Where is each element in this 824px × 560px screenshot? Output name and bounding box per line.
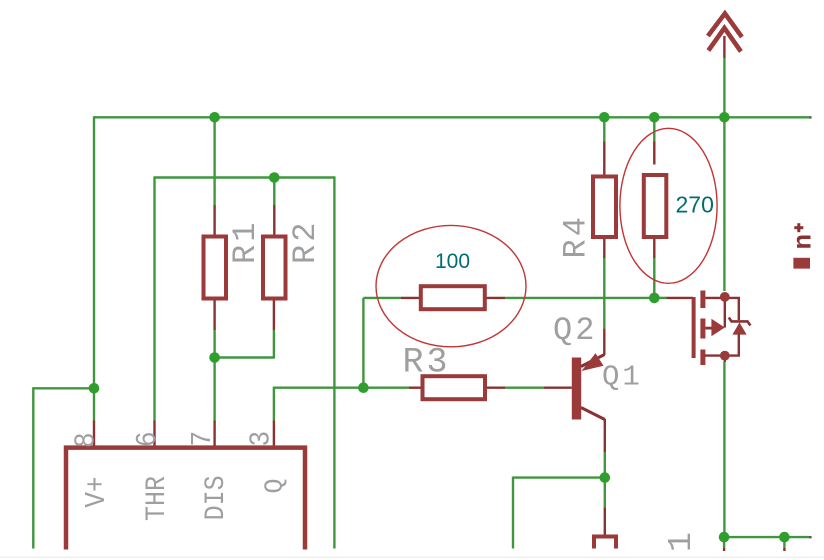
wire R1 bottom to junction — [213, 330, 215, 358]
resistor R1 — [204, 237, 227, 299]
wire y388 pin3 to junction — [273, 387, 364, 389]
ellipse annotation around 100 — [376, 225, 526, 346]
pin R1 bottom red — [213, 298, 215, 330]
pin R3 left red — [409, 387, 423, 389]
mosfet body diode zener bar — [729, 318, 751, 326]
pin base red — [544, 387, 572, 389]
pin stub red x784 — [783, 548, 785, 551]
junction at R4 top rail — [599, 112, 610, 123]
pin 3 stub red — [273, 421, 275, 447]
pin R3 right red — [485, 387, 505, 389]
wire junction left y477 — [513, 476, 605, 478]
wire R3 right to base — [505, 387, 544, 389]
pin 100 right red — [485, 297, 505, 299]
wire y537 to right edge — [724, 536, 809, 538]
wire junction down to bottom resistor — [604, 477, 606, 508]
pin bottom resistor red — [604, 507, 606, 534]
wire second rail y177 — [155, 176, 335, 178]
transistor Q1 base bar — [572, 358, 581, 420]
pin 100 left red — [401, 297, 421, 299]
svg-text:DIS: DIS — [200, 475, 232, 520]
junction at pin8 — [89, 383, 100, 394]
mosfet gate bar — [692, 297, 696, 358]
svg-text:V+: V+ — [81, 476, 114, 507]
svg-text:n: n — [789, 234, 819, 250]
VCC symbol inner chevron — [708, 28, 741, 52]
wire left drop x33 — [32, 387, 34, 548]
junction at gate net — [649, 293, 660, 304]
junction at 270 top rail — [649, 112, 660, 123]
ellipse annotation around 270 — [620, 128, 717, 283]
resistor R2 — [263, 237, 286, 299]
pin R4 bottom red — [603, 237, 605, 258]
pin R2 top red — [273, 205, 275, 237]
pin 270 top red — [653, 142, 655, 165]
IC 555 box — [66, 448, 305, 550]
wire stub below junction x784 — [783, 537, 785, 548]
wire y298 to 100 left — [363, 297, 401, 299]
pin stub red x724 — [723, 548, 725, 551]
mosfet diode bottom link — [705, 334, 739, 356]
wire stub below junction x724 — [723, 537, 725, 548]
wire y388 junction to R3 — [362, 387, 409, 389]
wire pin 8 stub — [93, 421, 95, 447]
wire pin3 riser — [273, 388, 275, 421]
pin 270 bottom red — [653, 237, 655, 258]
svg-text:270: 270 — [676, 192, 714, 218]
junction at R1 top rail — [209, 112, 220, 123]
transistor Q1 emitter arrow — [582, 353, 604, 371]
resistor 100 — [421, 286, 485, 309]
pin VCC stem red — [723, 36, 725, 58]
mosfet drain link — [705, 297, 724, 299]
port In+ plus sign — [797, 223, 800, 232]
junction at VCC rail — [719, 112, 730, 123]
svg-text:Q1: Q1 — [602, 361, 643, 394]
VCC symbol outer chevron — [708, 14, 742, 38]
resistor 270 — [644, 175, 667, 237]
wire left vertical from rail to pin8 — [93, 116, 95, 420]
wire rail to mosfet drain — [723, 117, 725, 291]
wire junction to gate lead — [654, 297, 666, 299]
wire R2 top — [273, 178, 275, 206]
mosfet drain dot — [720, 292, 730, 302]
wire R2 bottom riser — [273, 330, 275, 359]
transistor Q1 emitter diagonal top — [581, 355, 605, 367]
pin emitter red — [604, 419, 606, 452]
pin 7 stub red — [213, 421, 215, 447]
pin R4 top red — [603, 142, 605, 178]
svg-text:8: 8 — [70, 432, 103, 448]
svg-text:THR: THR — [141, 476, 173, 521]
mosfet bulk stub — [705, 327, 712, 330]
wire horizontal y388 to left — [33, 387, 94, 389]
mosfet bulk-drain vertical — [724, 297, 726, 328]
pin gate red — [667, 297, 694, 299]
wire pin 6 stub — [153, 421, 155, 447]
wire 100 right to junction — [505, 297, 654, 299]
wire top rail VCC — [94, 116, 810, 118]
wire VCC to rail — [723, 58, 725, 117]
svg-text:R1: R1 — [227, 220, 264, 264]
faint window boundary line — [0, 557, 824, 558]
svg-text:3: 3 — [245, 431, 278, 447]
svg-text:Q2: Q2 — [553, 312, 597, 349]
mosfet body diode branch — [725, 298, 739, 320]
wire junction up to 100 branch — [362, 298, 364, 389]
svg-text:Q: Q — [260, 478, 290, 493]
wire emitter to junction — [604, 452, 606, 478]
svg-text:R2: R2 — [287, 220, 324, 264]
svg-text:100: 100 — [435, 250, 470, 273]
wire end tip top rail — [809, 116, 812, 118]
junction at bottom x784 — [779, 532, 790, 543]
junction at bottom x724 — [719, 532, 730, 543]
svg-text:7: 7 — [187, 431, 220, 447]
pin R1 top red — [213, 205, 215, 237]
pin mosfet source stub red — [724, 356, 726, 362]
wire pin7 vertical — [213, 356, 215, 420]
svg-text:R4: R4 — [558, 214, 595, 258]
junction at R2 top — [269, 172, 280, 183]
mosfet channel bar middle — [700, 319, 705, 339]
svg-text:R3: R3 — [403, 343, 451, 383]
wire pin6 vertical — [153, 176, 155, 420]
wire mosfet source down — [723, 362, 725, 537]
wire drop x513 — [512, 477, 514, 549]
wire R1 top — [213, 117, 215, 205]
resistor R3 — [423, 376, 486, 399]
junction at R1 bottom — [209, 352, 220, 363]
wire 270 top — [653, 117, 655, 141]
wire R4 top — [603, 117, 605, 141]
transistor Q1 collector diagonal bottom — [581, 408, 605, 420]
mosfet source dot — [720, 351, 730, 361]
wire right drop x334 — [333, 176, 335, 548]
mosfet channel bar bottom — [700, 350, 705, 366]
wire 270 bottom to junction — [653, 258, 655, 299]
mosfet bulk arrow — [711, 319, 724, 336]
wire end tip bottom rail — [809, 536, 812, 538]
resistor R4 — [593, 177, 616, 238]
wire y357 across — [215, 356, 274, 358]
resistor bottom partial — [594, 537, 616, 549]
mosfet channel bar top — [700, 291, 705, 309]
wire R4 bottom to collector — [603, 258, 605, 329]
junction at emitter net — [600, 472, 611, 483]
junction at R3 left — [358, 382, 369, 393]
pin R2 bottom red — [273, 298, 275, 330]
mosfet body diode triangle — [732, 322, 746, 334]
svg-text:1: 1 — [663, 532, 700, 552]
port In+ pad — [793, 258, 810, 269]
svg-text:6: 6 — [132, 431, 165, 447]
pin collector red — [603, 329, 605, 355]
